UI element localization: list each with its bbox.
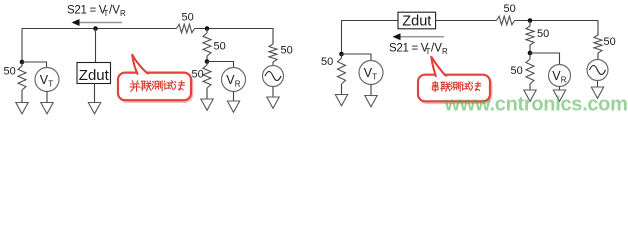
wire source branch drop left: [272, 28, 274, 44]
generator AC source left: [263, 66, 284, 87]
node J7 left shunt right circuit: [339, 52, 344, 57]
svg-text:50: 50: [321, 56, 333, 68]
callout parallel test method: [118, 55, 193, 102]
wire right bus to corner: [514, 20, 598, 35]
resistor R6 50 series right: [497, 16, 515, 25]
ground G6: [267, 97, 279, 108]
resistor R1 50 series left: [177, 24, 195, 33]
svg-text:50: 50: [511, 65, 523, 77]
source VR left: [222, 68, 246, 92]
arrow S21 direction left: [72, 19, 123, 26]
svg-text:T: T: [48, 79, 53, 88]
svg-text:S21 = V: S21 = V: [67, 5, 107, 17]
DUT impedance Zdut left: [77, 63, 111, 84]
wire generator to ground left: [272, 87, 274, 98]
wire generator to ground right: [597, 81, 599, 88]
ground G1: [16, 103, 28, 114]
svg-text:50: 50: [504, 3, 516, 15]
resistor R10 50 source right: [594, 35, 602, 53]
wire left riser: [21, 28, 23, 62]
ground G2: [41, 103, 53, 114]
arrow S21 direction right: [393, 33, 445, 40]
wire Zdut drop: [95, 29, 97, 63]
label S21 equation right: [389, 43, 448, 56]
node J5 right shunt tap: [528, 18, 533, 23]
wire VT to ground: [46, 92, 48, 103]
wire to generator left: [272, 62, 274, 66]
ground G9: [335, 95, 347, 106]
wire VT feed: [22, 62, 47, 68]
ground G11: [591, 87, 603, 98]
source VT right: [359, 61, 383, 85]
ground G5: [201, 99, 213, 110]
wire VR to ground: [233, 92, 235, 102]
resistor R7 50 shunt right upper: [529, 21, 531, 27]
wire right bus to Zdut: [341, 20, 399, 22]
node J1 Zdut tap: [93, 26, 98, 31]
svg-text:50: 50: [214, 41, 226, 53]
svg-text:R: R: [120, 9, 126, 18]
wire to generator right: [597, 53, 599, 60]
resistor R4 50 lower mid: [206, 62, 208, 66]
svg-text:50: 50: [281, 45, 293, 57]
resistor R9 50 shunt left of right circuit: [341, 54, 343, 58]
wire main bus right segment: [194, 28, 273, 30]
resistor R5 50 source left: [269, 44, 277, 62]
svg-text:T: T: [426, 47, 431, 56]
wire VR feed: [207, 62, 234, 68]
svg-text:R: R: [442, 47, 448, 56]
svg-text:T: T: [372, 72, 377, 81]
svg-text:Zdut: Zdut: [79, 67, 110, 84]
label S21 equation left: [67, 5, 126, 18]
svg-text:S21 = V: S21 = V: [389, 43, 429, 55]
wire VR to ground right: [559, 87, 561, 91]
DUT impedance Zdut right: [398, 12, 436, 30]
wire VT feed right: [342, 54, 372, 61]
wire VR feed right: [530, 53, 560, 65]
node J6 VR tap right: [528, 51, 533, 56]
ground G7: [553, 90, 565, 101]
svg-text:50: 50: [537, 28, 549, 40]
svg-text:50: 50: [192, 69, 204, 81]
ground G4: [227, 101, 239, 112]
svg-text:www.cntronics.com: www.cntronics.com: [444, 94, 628, 116]
node J2 after R1: [205, 26, 210, 31]
wire Zdut to ground: [94, 83, 96, 103]
ground G10: [365, 96, 377, 107]
wire main bus left segment: [22, 28, 177, 30]
svg-text:Zdut: Zdut: [402, 14, 431, 30]
svg-text:50: 50: [182, 12, 194, 24]
callout series test method: [418, 57, 492, 103]
resistor R2 50 shunt left: [21, 62, 23, 66]
ground G3: [88, 103, 100, 114]
wire VT to ground right: [370, 85, 372, 96]
svg-text:/V: /V: [431, 43, 442, 55]
resistor R8 50 lower right: [529, 53, 531, 59]
resistor R3 50 shunt mid: [206, 29, 208, 34]
svg-text:/V: /V: [109, 5, 120, 17]
svg-text:R: R: [561, 75, 567, 84]
node J3 left shunt: [20, 60, 25, 65]
node J4 VR tap: [205, 59, 210, 64]
svg-text:R: R: [235, 79, 241, 88]
wire right bus after Zdut: [436, 20, 497, 22]
source VT left: [35, 68, 59, 92]
ground G8: [524, 90, 536, 101]
source VR right: [549, 65, 571, 87]
svg-text:T: T: [104, 9, 109, 18]
svg-text:50: 50: [604, 36, 616, 48]
svg-text:50: 50: [4, 66, 16, 78]
generator AC source right: [587, 60, 608, 81]
wire right riser: [341, 21, 343, 55]
